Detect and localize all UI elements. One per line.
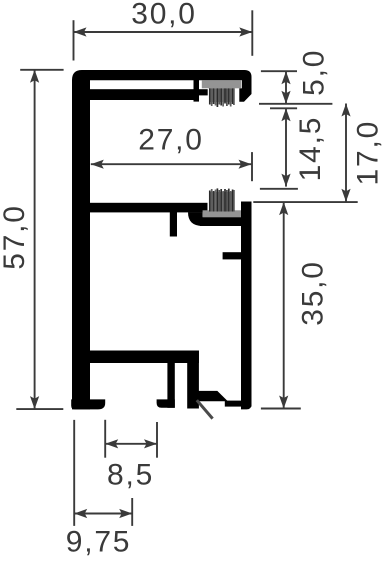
- dim 5,0 line: [285, 71, 287, 104]
- svg-text:17,0: 17,0: [352, 120, 385, 186]
- right wall: [241, 202, 252, 407]
- chamfered ledge off bar B: [199, 391, 228, 401]
- arrowheads: [30, 27, 351, 518]
- 9,75 arrows: [74, 509, 87, 518]
- 8,5 arrows: [105, 439, 118, 448]
- stub hanging from middle wall: [170, 211, 177, 237]
- svg-text:57,0: 57,0: [0, 204, 31, 270]
- dim 14,5 line: [285, 108, 287, 186]
- slot closing block: [194, 80, 200, 102]
- dim 30,0 extension lines: [73, 20, 75, 60]
- 57,0 arrows: [30, 70, 39, 83]
- inner stub on right wall: [223, 252, 241, 259]
- bar A (screw channel left leg): [167, 363, 174, 408]
- dim 57,0 ticks: [20, 69, 63, 71]
- svg-text:5,0: 5,0: [298, 49, 331, 96]
- right wall foot (rounded bottom): [241, 401, 252, 409]
- svg-text:14,5: 14,5: [294, 116, 327, 182]
- 14,5 arrows: [281, 108, 290, 121]
- dim 9,75 extension lines: [73, 420, 75, 526]
- top brush bristles: [209, 88, 234, 107]
- 30,0 arrows: [74, 27, 87, 36]
- top brush seal base (gray): [202, 81, 242, 89]
- bottom brush bristles: [209, 188, 234, 211]
- left wall foot flare (rightward): [71, 399, 105, 409]
- svg-text:30,0: 30,0: [131, 0, 197, 30]
- bar A foot flare (leftward): [157, 399, 175, 407]
- dim 27,0 right extension: [251, 152, 253, 181]
- dim 17,0 line: [345, 104, 347, 202]
- dim 30,0 line: [74, 31, 253, 33]
- dim 8,5 line: [105, 443, 157, 445]
- 17,0 arrows: [341, 104, 350, 117]
- dim 57,0 line: [34, 70, 36, 409]
- right ticks: [261, 70, 297, 72]
- rounded under-step of middle wall: [188, 212, 203, 226]
- 5,0 arrows: [281, 71, 290, 84]
- 27,0 arrows: [91, 160, 104, 169]
- second bar (inner top wall): [90, 89, 199, 100]
- thin gray diagonal mark: [197, 400, 213, 418]
- bottom-right strip: [225, 401, 252, 407]
- left lip of top brush slot: [199, 89, 208, 95]
- dim 35,0 line: [283, 202, 285, 408]
- bottom inner wall: [90, 351, 199, 364]
- svg-text:9,75: 9,75: [66, 526, 132, 559]
- middle wall: [90, 203, 208, 213]
- bottom brush seal base (gray): [203, 210, 241, 217]
- dim 8,5 extension lines: [104, 420, 106, 458]
- svg-text:8,5: 8,5: [107, 459, 154, 492]
- bar B (screw channel right leg): [187, 351, 199, 409]
- bottom brush holder channel: [200, 217, 246, 226]
- 35,0 arrows: [279, 202, 288, 215]
- svg-text:27,0: 27,0: [138, 124, 204, 157]
- svg-text:35,0: 35,0: [297, 260, 330, 326]
- dim 9,75 line: [74, 513, 132, 515]
- dim 27,0 line: [91, 163, 252, 165]
- profile outer: left wall + top bar + top-right brush jaw: [72, 70, 252, 409]
